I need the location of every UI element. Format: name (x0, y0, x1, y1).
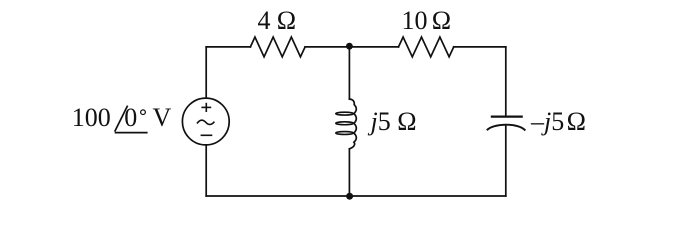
svg-text:Ω: Ω (567, 107, 586, 136)
svg-text:V: V (153, 103, 172, 132)
svg-text:Ω: Ω (277, 6, 296, 35)
svg-text:4: 4 (258, 6, 271, 35)
svg-text:Ω: Ω (397, 107, 416, 136)
svg-text:10: 10 (402, 6, 428, 35)
svg-text:Ω: Ω (432, 6, 451, 35)
svg-text:j5: j5 (368, 107, 391, 136)
svg-text:–j5: –j5 (530, 107, 564, 136)
svg-text:100: 100 (72, 103, 111, 132)
